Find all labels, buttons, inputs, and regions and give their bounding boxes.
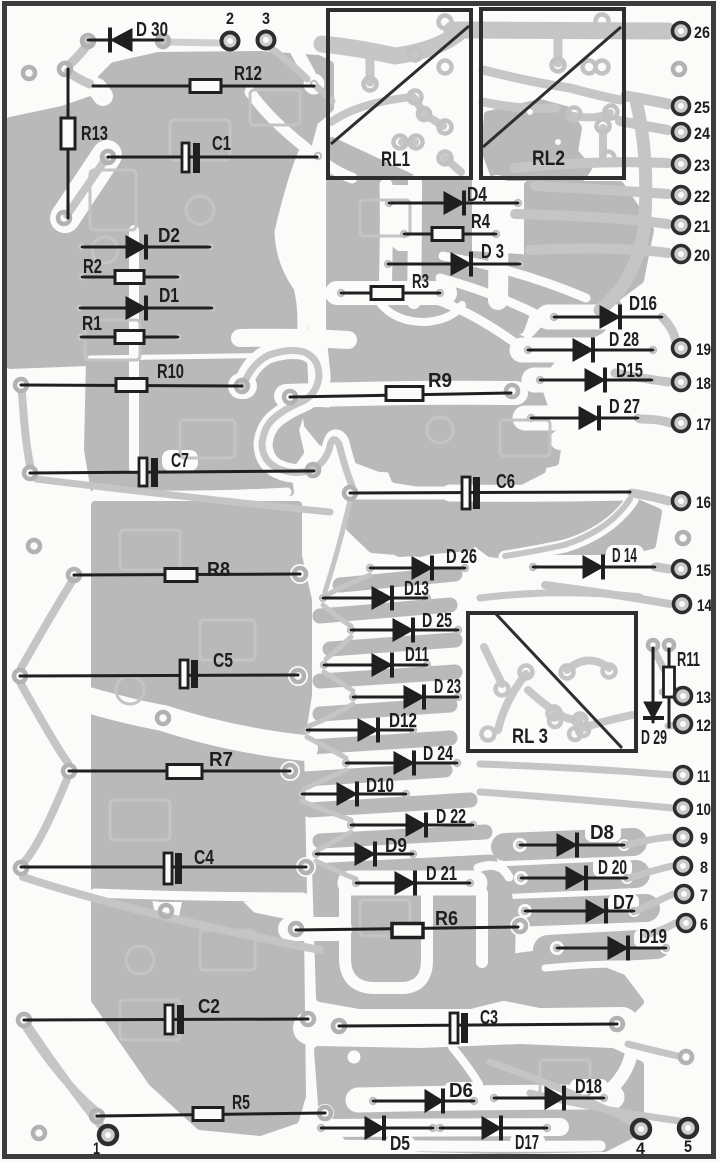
svg-text:D17: D17 (515, 1132, 539, 1154)
copper pour mid-left big block (95, 505, 308, 898)
pad 9 (675, 829, 709, 849)
white channels on bottom diode rows (358, 1097, 612, 1100)
wire trace pad 8 (629, 866, 672, 878)
svg-text:9: 9 (700, 829, 708, 848)
svg-text:25: 25 (694, 98, 710, 117)
wire trace to pad 5 (530, 1093, 680, 1121)
svg-text:D 3: D 3 (481, 241, 504, 263)
diode D12 (307, 710, 417, 743)
diode D22 (351, 806, 473, 838)
resistor R9 (290, 370, 511, 401)
wire trace pad 17 (640, 419, 670, 423)
white pockets lead pads (288, 666, 308, 686)
svg-text:C4: C4 (194, 847, 215, 869)
pad 13 (675, 688, 712, 708)
white pocket R12 left pad (97, 88, 103, 96)
white channel mid-left horizontal (88, 700, 305, 748)
diode D2 (82, 225, 210, 260)
resistor R13 (61, 69, 108, 218)
svg-text:R6: R6 (435, 908, 458, 930)
white capsules D16 fan rows (548, 305, 666, 330)
diode D3 (388, 241, 520, 277)
copper pour below D19 (480, 952, 640, 1014)
relay RL2 (481, 9, 624, 178)
white label pockets D8 block (585, 823, 621, 842)
svg-text:D8: D8 (590, 822, 614, 844)
wire trace R7pad down to C4pad (24, 779, 67, 862)
svg-text:D2: D2 (158, 225, 180, 247)
svg-text:D11: D11 (405, 644, 429, 666)
wire trace fan pad 23 (515, 162, 668, 168)
pad 21 (673, 217, 711, 237)
svg-text:C1: C1 (212, 133, 231, 155)
copper pour central below relays (330, 182, 378, 302)
svg-text:22: 22 (694, 187, 710, 206)
svg-text:D 26: D 26 (446, 546, 477, 568)
copper pour D7 row blob (512, 908, 646, 913)
svg-text:12: 12 (696, 716, 711, 735)
white label pockets fan (604, 329, 645, 350)
wire trace long diagonal under C7 (36, 479, 330, 512)
svg-text:C2: C2 (198, 996, 220, 1018)
diode D5 (321, 1116, 433, 1156)
white bay R10 right pad (241, 373, 244, 399)
svg-text:R2: R2 (83, 256, 102, 278)
pad 12 (675, 716, 712, 736)
pad 5 (679, 1119, 697, 1156)
diode D30 (88, 19, 168, 53)
diode D10 (302, 775, 406, 807)
pad 4 (632, 1120, 650, 1158)
relay RL3 (468, 613, 636, 751)
white channels central vertical strips (385, 185, 386, 300)
svg-text:D4: D4 (467, 184, 488, 206)
white strip above bottom frame (330, 1145, 600, 1146)
wire trace C5pad to R7pad (21, 684, 68, 763)
relay RL1 (328, 10, 471, 178)
pad 24 (673, 124, 711, 144)
svg-text:D5: D5 (390, 1133, 410, 1155)
ghost traces inside RL2 (483, 40, 620, 155)
copper pour patch S-east (332, 348, 390, 428)
svg-text:D12: D12 (389, 710, 417, 732)
svg-text:R10: R10 (157, 361, 184, 383)
wire trace pad 7 (636, 894, 673, 911)
diode D4 (389, 184, 518, 216)
copper pour top-left block (10, 55, 330, 365)
wire trace C2 diagonals (26, 1027, 95, 1110)
wire trace pad 19 (663, 318, 676, 342)
svg-text:26: 26 (694, 23, 710, 42)
copper pour inside RL2 blob (485, 103, 588, 177)
pad 23 (673, 156, 711, 176)
white channel C6 row (352, 487, 450, 500)
pad 25 (673, 98, 711, 118)
pad 6 (678, 915, 709, 935)
wire trace column zigzags (302, 500, 370, 879)
svg-text:18: 18 (696, 374, 711, 393)
svg-text:D 20: D 20 (598, 857, 627, 879)
svg-text:R5: R5 (232, 1092, 250, 1114)
copper pour D20 row blob (508, 874, 636, 880)
svg-text:11: 11 (697, 767, 710, 786)
white stripes top of fan (443, 256, 586, 298)
pad 19 (673, 340, 712, 360)
svg-text:RL2: RL2 (532, 147, 565, 170)
copper pour C6 blob upper (380, 395, 545, 483)
diode D18 (494, 1076, 604, 1111)
diode D14 (533, 545, 655, 580)
wire trace band to pad 26 (452, 30, 668, 31)
pad 7 (676, 886, 709, 906)
wire trace pad 15 (657, 567, 669, 569)
white separation A/A2 (90, 355, 300, 358)
capacitor C4 (21, 847, 306, 884)
wire trace right band down (600, 100, 646, 310)
svg-text:D 22: D 22 (436, 806, 466, 828)
resistor R1 (81, 313, 178, 344)
svg-text:R7: R7 (209, 749, 233, 771)
resistor R11 (664, 649, 701, 727)
wire trace left column vertical (22, 393, 30, 465)
pad 11 (675, 767, 711, 787)
wire trace R13pad to C1pad (67, 160, 105, 215)
resistor R12 (93, 63, 314, 93)
resistor R5 (97, 1092, 325, 1121)
wire trace pad 14 (545, 585, 670, 604)
pad 22 (673, 187, 711, 207)
white capsules center diode column (350, 871, 475, 896)
pad 2 (222, 9, 239, 50)
svg-text:D 25: D 25 (422, 610, 452, 632)
diode D15 (540, 360, 652, 393)
svg-text:R1: R1 (82, 313, 102, 335)
diode D25 (351, 610, 458, 643)
diode D9 (316, 835, 413, 867)
wire trace pad 6 (646, 923, 675, 935)
white pocket R12 right pad (304, 74, 325, 95)
wire trace R8pad up (21, 580, 73, 668)
svg-text:C3: C3 (480, 1007, 498, 1029)
diode D6 (373, 1080, 474, 1114)
svg-text:D16: D16 (629, 293, 657, 315)
pad 17 (673, 415, 712, 435)
svg-text:13: 13 (696, 688, 711, 707)
copper pour inside RL1 lower-left wedge (331, 141, 418, 181)
resistor R6 (296, 908, 518, 938)
resistor R10 (21, 361, 242, 392)
white channel below C7 (95, 492, 287, 495)
svg-text:6: 6 (700, 915, 708, 934)
svg-text:15: 15 (696, 561, 711, 580)
svg-text:D9: D9 (385, 835, 407, 857)
copper pour D19 row blob (548, 944, 656, 950)
wire trace fan pad 25 (626, 96, 668, 104)
diode D23 (353, 676, 461, 710)
copper pour C6 southeast mass (470, 493, 658, 560)
svg-text:17: 17 (696, 415, 711, 434)
diode D17 (440, 1116, 547, 1155)
wire trace squiggle below C6 (505, 499, 630, 556)
diode D21 (356, 863, 470, 896)
svg-text:R12: R12 (234, 63, 262, 85)
white channel C7-C6 link (287, 470, 354, 493)
copper pour bottom low block K (318, 1048, 640, 1150)
wire trace to lone pad bottom-right (628, 1044, 678, 1056)
copper pour D8 row blob (505, 842, 633, 847)
wire trace to pad 4 (490, 1062, 632, 1122)
white channel S mid top band (240, 338, 348, 340)
svg-text:D1: D1 (159, 285, 179, 307)
svg-text:D15: D15 (616, 360, 643, 382)
copper pour bottom-left block (95, 898, 302, 1132)
svg-text:14: 14 (697, 596, 712, 615)
white bays D8 block lead ends (513, 838, 527, 852)
wire trace top-left corner (70, 44, 88, 64)
svg-text:5: 5 (684, 1137, 692, 1156)
pad 20 (673, 246, 711, 266)
wire trace fan pad 21 (515, 214, 668, 224)
svg-text:C7: C7 (171, 450, 189, 472)
white bay R5 right pad (316, 1104, 334, 1122)
copper pour mid-right fan block (330, 250, 620, 470)
diode D13 (323, 578, 429, 611)
white pocket C7 label (162, 450, 198, 471)
diode D7 (525, 892, 634, 924)
diode D28 (528, 329, 653, 363)
svg-text:7: 7 (700, 886, 708, 905)
ghost component outlines on copper (85, 90, 590, 1096)
svg-text:R13: R13 (81, 123, 108, 145)
svg-text:10: 10 (696, 800, 711, 819)
white pockets inside RL1 (438, 148, 456, 166)
svg-text:D 24: D 24 (423, 743, 454, 765)
capacitor C2 (24, 996, 308, 1034)
diode D24 (346, 743, 457, 776)
white pocket below C3 (348, 1051, 361, 1064)
svg-text:24: 24 (694, 124, 710, 143)
resistor R7 (69, 749, 290, 779)
wire trace S from R10pad to C6pad (243, 351, 352, 486)
wire trace R12pad into RL1 (316, 86, 332, 101)
svg-text:R4: R4 (471, 211, 491, 233)
pad 8 (675, 858, 709, 878)
white channel vertical D2-D1 column (129, 230, 139, 468)
wire trace fan pad 20 (530, 249, 668, 253)
pad 1 (93, 1126, 117, 1158)
svg-text:D19: D19 (639, 926, 667, 948)
white pocket D14 label (606, 545, 644, 565)
svg-text:C6: C6 (496, 471, 515, 493)
svg-text:8: 8 (700, 858, 708, 877)
pad 26 (673, 23, 711, 43)
svg-text:R11: R11 (677, 649, 700, 671)
capacitor C7 (30, 450, 314, 487)
wire trace bottom diagonal (23, 877, 320, 950)
diode D27 (531, 396, 640, 431)
capacitor C1 (108, 133, 317, 173)
svg-text:D 14: D 14 (612, 545, 638, 567)
diode D29 (641, 648, 667, 749)
svg-text:3: 3 (262, 9, 270, 28)
diode D20 (521, 857, 627, 891)
wire trace above RL3 (480, 593, 640, 598)
svg-text:R9: R9 (428, 370, 452, 392)
pad 15 (673, 561, 712, 581)
wire trace fan pad 22 (535, 186, 668, 194)
svg-text:D10: D10 (366, 775, 394, 797)
pad 14 (674, 596, 713, 616)
pad 18 (673, 374, 712, 394)
white channel left of RL1 (250, 92, 306, 345)
diode D1 (80, 285, 212, 321)
wire trace D30 to pad2 (163, 42, 220, 43)
svg-text:D 23: D 23 (434, 676, 461, 698)
wire trace pad 9 (626, 837, 672, 845)
white channel bottom of E (95, 893, 303, 897)
capacitor C3 (339, 1007, 617, 1043)
white band C3 row (310, 1024, 622, 1028)
svg-text:D7: D7 (613, 892, 634, 914)
pad 10 (675, 800, 712, 820)
svg-text:20: 20 (694, 246, 710, 265)
white pocket C1 right pad (307, 145, 329, 167)
svg-text:D 21: D 21 (426, 863, 457, 885)
resistor R3 (341, 271, 440, 300)
wire trace pad 16 (632, 493, 669, 501)
svg-text:R8: R8 (207, 559, 230, 581)
wire trace fan pad 24 (620, 121, 668, 130)
white slot R13 bottom trace (65, 155, 107, 218)
capacitor C6 (350, 471, 630, 509)
svg-text:23: 23 (694, 156, 710, 175)
white channel D2 area (306, 148, 352, 178)
diode D16 (554, 293, 662, 330)
svg-text:D 27: D 27 (609, 396, 640, 418)
resistor R4 (404, 211, 496, 241)
diode D8 (520, 822, 624, 858)
svg-text:D 30: D 30 (136, 19, 168, 41)
white capsule D14 row (525, 555, 660, 579)
wire trace pad3 to R12 pad (267, 45, 307, 79)
ghost traces inside RL1 (322, 30, 462, 172)
white gap below D19 (545, 964, 645, 968)
svg-text:RL1: RL1 (381, 148, 410, 171)
white pocket between D27 and C6 (560, 436, 653, 480)
white U channel around R6 island (345, 878, 427, 988)
copper pour bottom-center block J (316, 862, 512, 1005)
svg-text:19: 19 (696, 340, 711, 359)
svg-text:D6: D6 (449, 1080, 473, 1102)
copper pour center column leaves (305, 544, 490, 870)
wire traces below RL3 (480, 764, 672, 775)
svg-text:D 29: D 29 (641, 727, 667, 749)
pad 3 (258, 9, 275, 49)
diode D11 (324, 644, 429, 678)
svg-text:16: 16 (696, 493, 711, 512)
capacitor C5 (20, 650, 298, 688)
ghost traces inside RL3 (484, 647, 632, 730)
white curl bottom-right (605, 1050, 632, 1094)
svg-text:2: 2 (226, 9, 234, 28)
svg-text:D 28: D 28 (609, 329, 639, 351)
svg-text:D18: D18 (575, 1076, 602, 1098)
svg-text:RL 3: RL 3 (512, 725, 548, 748)
svg-text:D13: D13 (404, 578, 429, 600)
wire trace R11 diagonal (654, 650, 678, 697)
wire trace pad 13 stub (662, 692, 674, 696)
copper pour left mid block (88, 356, 305, 492)
diode D19 (557, 926, 667, 961)
pad 16 (673, 493, 712, 513)
white channel big S (243, 350, 353, 484)
svg-text:R3: R3 (412, 271, 429, 293)
diode D26 (370, 546, 477, 581)
wire trace pad 18 (615, 373, 669, 382)
svg-text:21: 21 (694, 217, 710, 236)
resistor R8 (74, 559, 300, 582)
white squiggle channel below C6 end (505, 500, 632, 557)
svg-text:C5: C5 (213, 650, 233, 672)
resistor R2 (82, 256, 178, 284)
lead end dots (77, 37, 669, 1131)
